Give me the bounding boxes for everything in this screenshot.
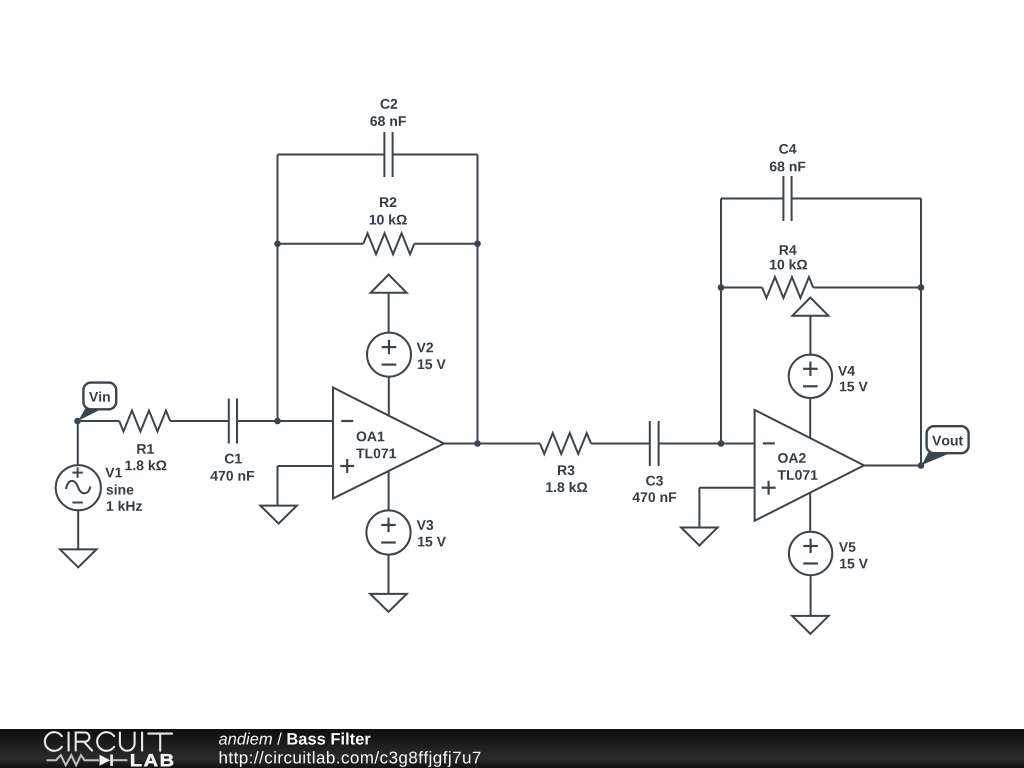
logo text LAB [131, 754, 173, 766]
wire feedback right vertical [477, 155, 479, 444]
wire feedback 2 right vertical [920, 199, 922, 466]
resistor R2 [363, 197, 414, 254]
node R4 right junction dot [918, 284, 925, 291]
wire feedback 2 top right [792, 198, 921, 200]
wire R3 to C3 [591, 443, 650, 445]
capacitor C1 [210, 399, 254, 481]
wire to ground at OA2 non-inverting [698, 488, 700, 528]
resistor R3 [540, 433, 591, 492]
wire to ground at OA1 non-inverting [277, 466, 279, 506]
wire OA2 non-inverting input [699, 487, 754, 489]
voltage source V5 [789, 532, 868, 575]
node Vout junction dot [918, 462, 925, 469]
capacitor C4 [770, 144, 806, 221]
op-amp OA1 [333, 388, 444, 499]
node R2 right junction dot [474, 240, 481, 247]
voltage source V4 [789, 355, 868, 398]
node R4 left junction dot [718, 284, 725, 291]
voltage source V1 sine [56, 465, 142, 511]
ground at OA1 non-inverting input [260, 506, 297, 524]
voltage source V2 [367, 333, 446, 377]
wire R2 row right [414, 243, 477, 245]
footer bar [0, 729, 1024, 768]
node OA1 output junction dot [474, 440, 481, 447]
wire OA1 negative supply pin [388, 470, 390, 510]
wire V1 to ground [77, 510, 79, 549]
wire R1 to C1 [170, 420, 229, 422]
resistor R1 [119, 411, 170, 471]
node junction dot at C1/feedback [274, 418, 281, 425]
wire OA1 non-inverting input [278, 465, 334, 467]
logo resistor and diode symbol [47, 755, 128, 766]
footer author / title text [219, 733, 371, 745]
wire OA2 output [864, 465, 921, 467]
wire V5 to ground [810, 575, 812, 616]
voltage source V3 [366, 510, 446, 554]
net label Vout [922, 426, 969, 465]
wire Vin to R1 [78, 420, 120, 422]
wire OA1 output [444, 443, 540, 445]
wire R4 row right [813, 287, 921, 289]
CIRCUITLAB logo text CIRCUIT [45, 732, 172, 751]
net label Vin [78, 383, 116, 421]
wire OA2 negative supply pin [809, 492, 811, 532]
ground below V3 [370, 594, 407, 612]
wire V2 to OA1 positive supply pin [388, 377, 390, 416]
ground at OA2 non-inverting input [681, 528, 718, 546]
ground below V5 [792, 616, 829, 634]
wire feedback top left [278, 154, 385, 156]
wire R2 row left [278, 243, 364, 245]
wire V3 to ground [388, 555, 390, 594]
wire feedback 2 top left [721, 198, 783, 200]
node Vin junction dot [74, 418, 81, 425]
wire C1 to OA1 inverting input [237, 420, 333, 422]
wire C3 to OA2 inverting input [659, 443, 755, 445]
capacitor C3 [633, 421, 677, 502]
power rail arrow above V2 [371, 275, 407, 333]
node junction dot at C3/feedback [718, 440, 725, 447]
power rail arrow above V4 [792, 298, 828, 355]
wire V4 to OA2 positive supply pin [809, 398, 811, 438]
op-amp OA2 [755, 410, 864, 521]
ground below V1 [60, 549, 97, 567]
capacitor C2 [370, 99, 406, 177]
wire V1 branch [77, 421, 79, 465]
node R2 left junction dot [274, 240, 281, 247]
resistor R4 [762, 245, 813, 298]
wire feedback left vertical [277, 155, 279, 422]
wire feedback 2 left vertical [720, 199, 722, 444]
wire feedback top right [393, 154, 478, 156]
footer url text [220, 751, 481, 767]
wire R4 row left [721, 287, 762, 289]
